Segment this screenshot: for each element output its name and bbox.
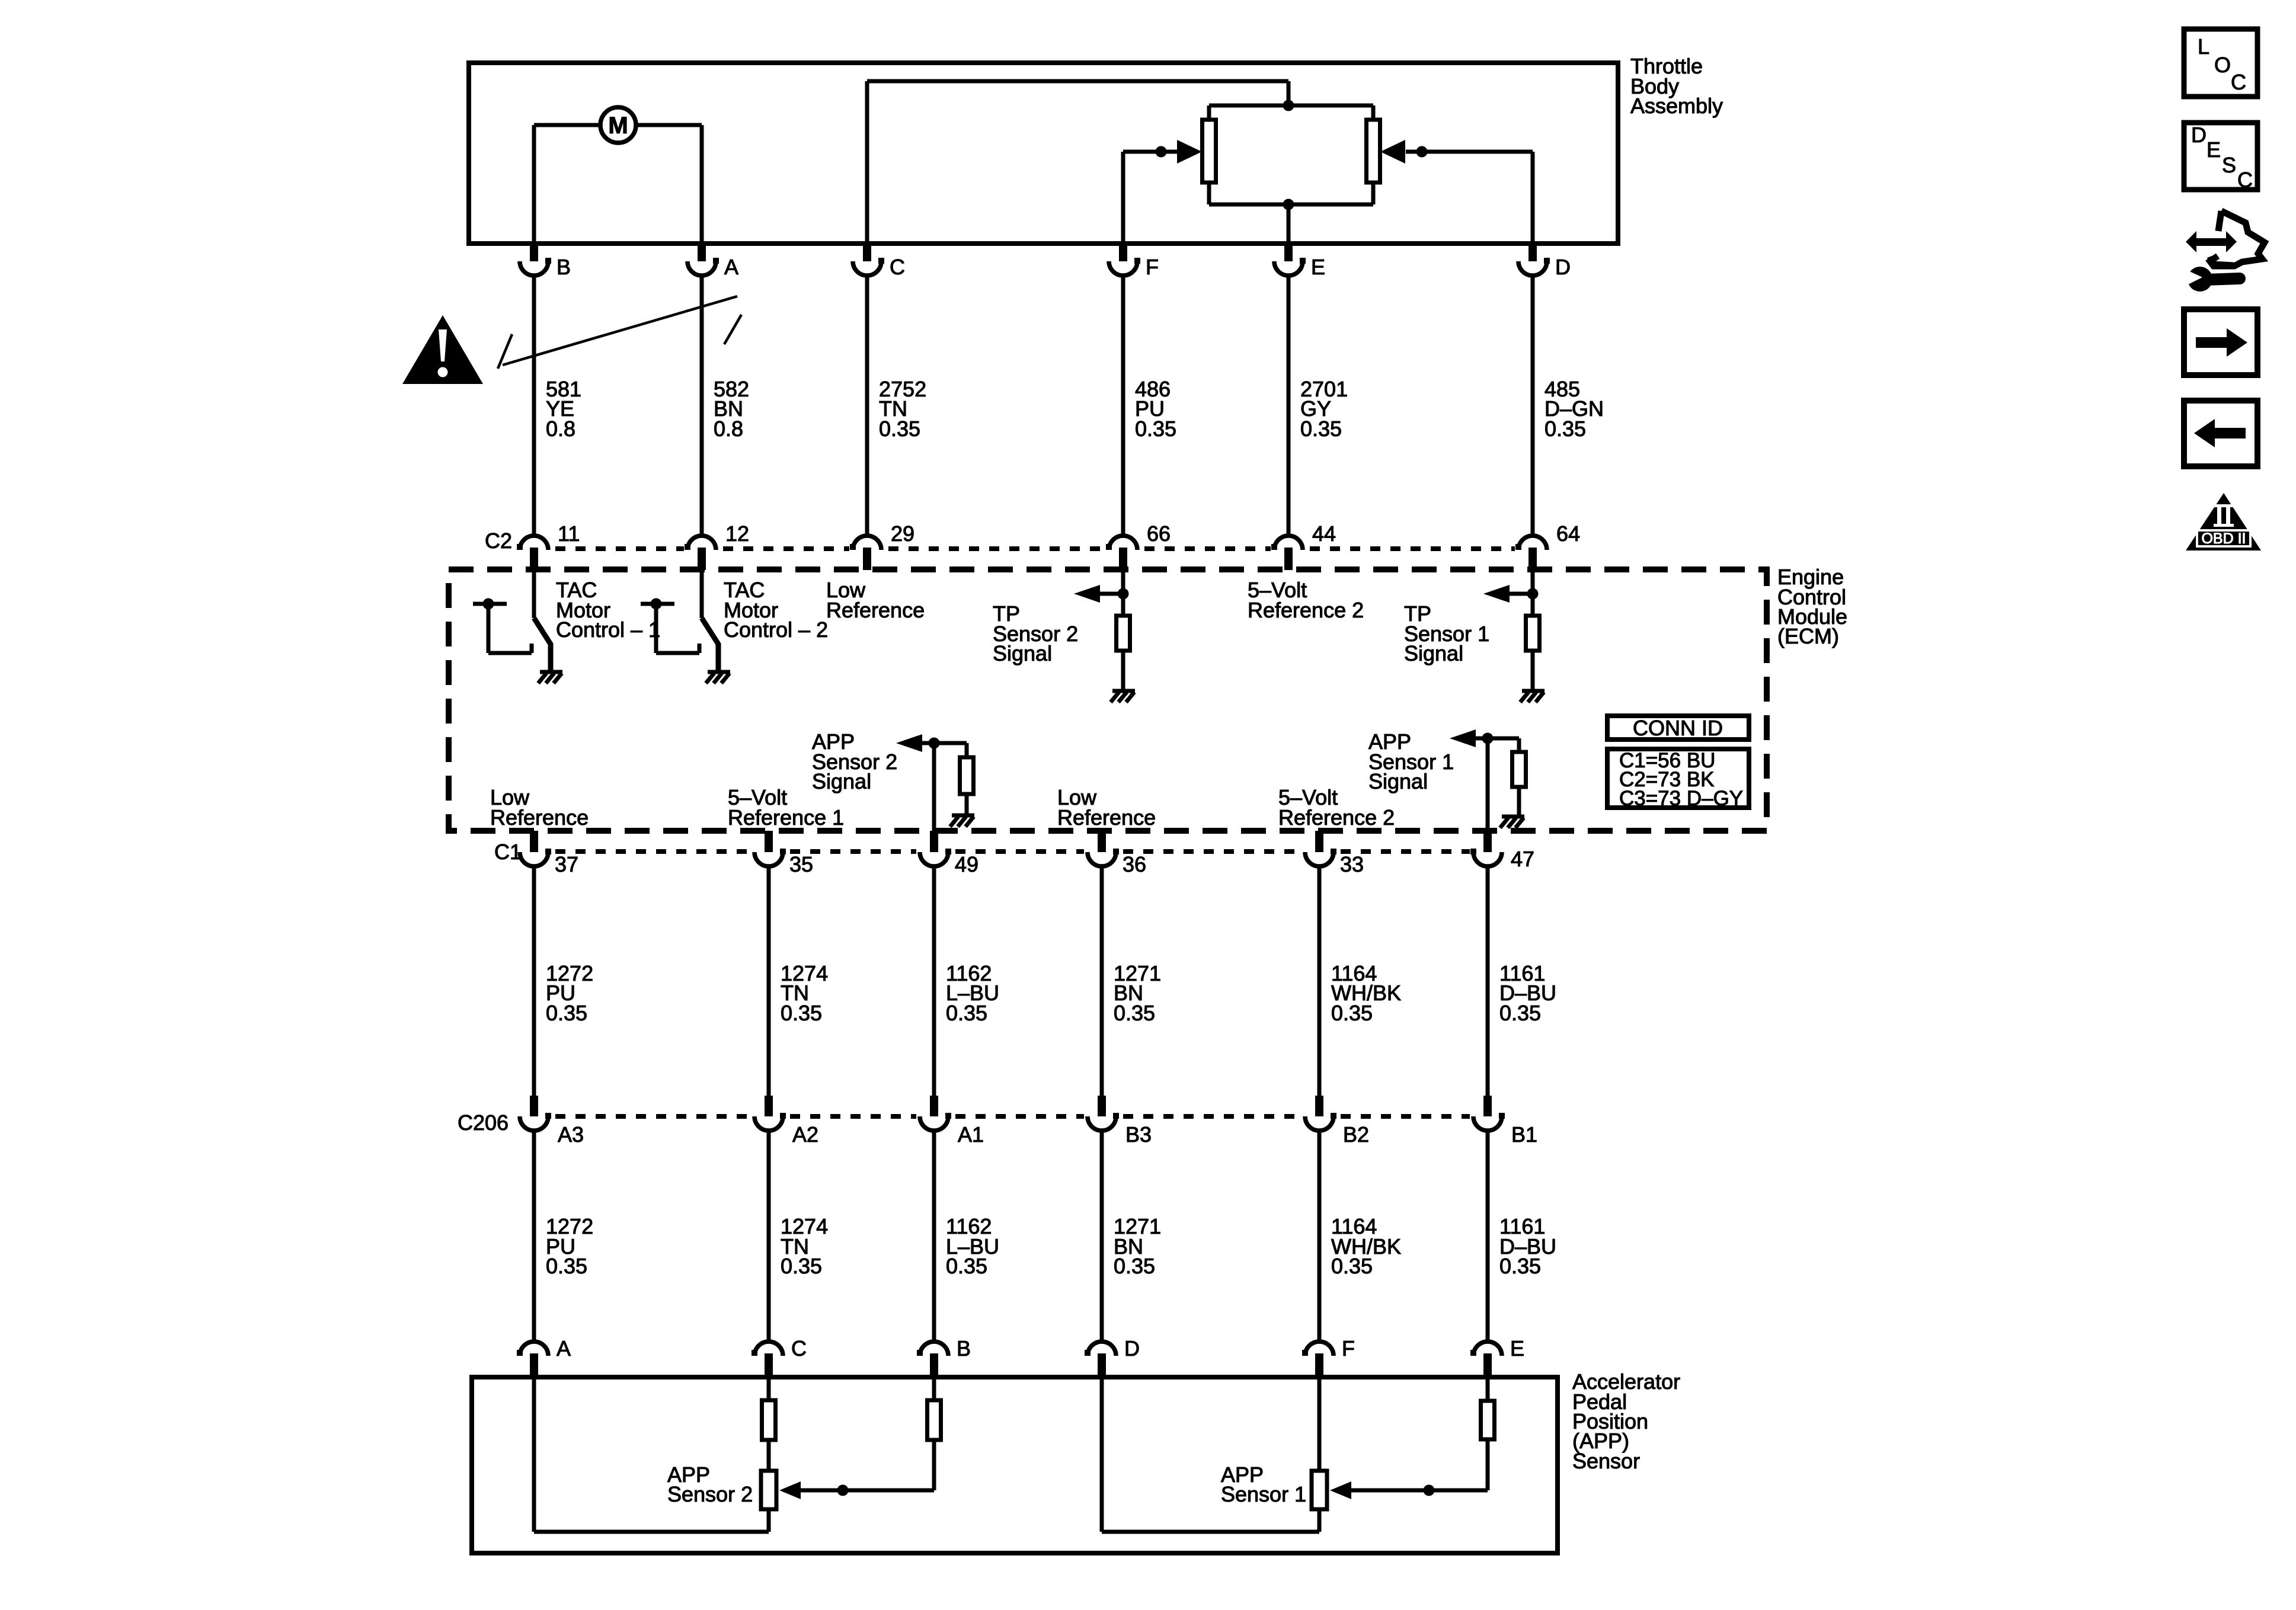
svg-text:44: 44 [1312, 521, 1336, 546]
svg-text:CONN ID: CONN ID [1633, 716, 1723, 740]
svg-text:Sensor 1: Sensor 1 [1221, 1482, 1306, 1506]
svg-text:0.35: 0.35 [546, 1001, 587, 1025]
svg-text:0.35: 0.35 [1331, 1001, 1373, 1025]
svg-text:Reference: Reference [1057, 805, 1156, 830]
svg-text:E: E [1311, 255, 1325, 279]
svg-text:0.35: 0.35 [1114, 1001, 1155, 1025]
svg-text:O: O [2214, 53, 2231, 77]
svg-text:Reference: Reference [490, 805, 589, 830]
svg-text:B3: B3 [1125, 1122, 1152, 1147]
svg-text:D: D [2191, 123, 2207, 147]
svg-text:Control – 1: Control – 1 [556, 617, 660, 642]
svg-text:Sensor 2: Sensor 2 [667, 1482, 753, 1506]
svg-text:49: 49 [955, 852, 978, 876]
svg-text:C: C [2237, 168, 2253, 192]
svg-text:C: C [890, 255, 905, 279]
svg-text:L: L [2198, 34, 2209, 59]
svg-text:0.35: 0.35 [1331, 1254, 1373, 1278]
svg-text:0.35: 0.35 [781, 1254, 822, 1278]
svg-text:Sensor: Sensor [1572, 1449, 1640, 1473]
svg-text:0.35: 0.35 [1544, 417, 1586, 441]
svg-text:M: M [608, 113, 628, 139]
svg-text:0.35: 0.35 [946, 1254, 987, 1278]
svg-text:S: S [2222, 153, 2236, 177]
svg-text:C: C [791, 1336, 807, 1361]
svg-text:F: F [1342, 1336, 1355, 1361]
svg-text:0.35: 0.35 [1135, 417, 1176, 441]
svg-text:66: 66 [1147, 521, 1171, 546]
svg-text:Reference: Reference [826, 598, 925, 622]
svg-text:C2: C2 [485, 529, 512, 553]
svg-text:C3=73 D–GY: C3=73 D–GY [1619, 787, 1743, 810]
svg-text:A: A [724, 255, 738, 279]
svg-text:A2: A2 [792, 1122, 818, 1147]
svg-text:Signal: Signal [1404, 641, 1463, 665]
svg-text:Signal: Signal [993, 641, 1052, 665]
svg-text:B: B [557, 255, 571, 279]
svg-text:B1: B1 [1511, 1122, 1537, 1147]
svg-text:Assembly: Assembly [1630, 94, 1723, 118]
svg-text:29: 29 [891, 521, 914, 546]
svg-text:D: D [1124, 1336, 1140, 1361]
svg-text:35: 35 [789, 852, 813, 876]
svg-text:(ECM): (ECM) [1777, 624, 1839, 648]
svg-text:33: 33 [1340, 852, 1364, 876]
svg-text:11: 11 [558, 521, 580, 546]
svg-text:12: 12 [725, 521, 749, 546]
svg-text:Control – 2: Control – 2 [724, 617, 828, 642]
svg-text:Signal: Signal [1368, 769, 1428, 793]
svg-text:Reference 2: Reference 2 [1248, 598, 1364, 622]
svg-text:C206: C206 [458, 1110, 509, 1135]
svg-text:B: B [957, 1336, 971, 1361]
svg-text:A3: A3 [558, 1122, 584, 1147]
svg-text:Reference 1: Reference 1 [728, 805, 844, 830]
svg-text:37: 37 [555, 852, 578, 876]
svg-text:C: C [2231, 70, 2246, 94]
svg-text:C1: C1 [494, 840, 522, 864]
svg-text:0.35: 0.35 [1499, 1001, 1541, 1025]
svg-text:Signal: Signal [812, 769, 871, 793]
svg-text:0.35: 0.35 [1300, 417, 1342, 441]
svg-text:E: E [1510, 1336, 1524, 1361]
svg-text:F: F [1146, 255, 1159, 279]
svg-text:0.35: 0.35 [879, 417, 920, 441]
svg-text:D: D [1555, 255, 1571, 279]
svg-text:E: E [2207, 137, 2221, 162]
svg-text:Reference 2: Reference 2 [1278, 805, 1395, 830]
svg-text:64: 64 [1556, 521, 1580, 546]
svg-text:A: A [557, 1336, 571, 1361]
svg-text:0.35: 0.35 [946, 1001, 987, 1025]
svg-text:0.35: 0.35 [546, 1254, 587, 1278]
svg-text:B2: B2 [1343, 1122, 1369, 1147]
svg-text:0.35: 0.35 [1499, 1254, 1541, 1278]
svg-text:36: 36 [1123, 852, 1146, 876]
svg-text:0.35: 0.35 [781, 1001, 822, 1025]
svg-text:47: 47 [1511, 847, 1534, 871]
svg-text:0.8: 0.8 [714, 417, 743, 441]
svg-text:A1: A1 [958, 1122, 984, 1147]
svg-text:0.35: 0.35 [1114, 1254, 1155, 1278]
svg-text:OBD II: OBD II [2201, 530, 2246, 547]
svg-text:0.8: 0.8 [546, 417, 575, 441]
